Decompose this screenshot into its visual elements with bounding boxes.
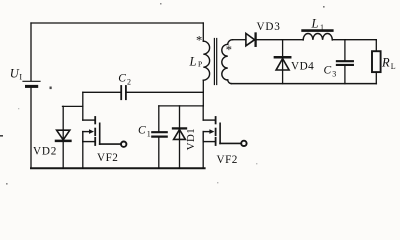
svg-text:C: C [138, 125, 146, 137]
svg-text:P: P [198, 60, 202, 69]
svg-text:1: 1 [147, 130, 151, 139]
svg-text:VD1: VD1 [185, 128, 197, 150]
svg-text:L: L [189, 55, 197, 69]
svg-text:VF2: VF2 [97, 152, 118, 164]
svg-text:R: R [381, 56, 390, 70]
svg-text:VD2: VD2 [33, 146, 57, 158]
svg-text:VF2: VF2 [217, 154, 238, 166]
svg-text:L: L [391, 62, 396, 71]
svg-text:*: * [226, 43, 232, 57]
svg-text:2: 2 [127, 78, 131, 87]
svg-text:C: C [324, 65, 332, 77]
svg-text:1: 1 [320, 23, 324, 32]
svg-text:C: C [118, 73, 126, 85]
svg-text:VD4: VD4 [291, 61, 314, 73]
svg-text:3: 3 [332, 70, 336, 79]
svg-text:I: I [19, 72, 22, 81]
svg-text:*: * [196, 34, 202, 48]
svg-text:VD3: VD3 [257, 21, 281, 33]
svg-text:L: L [311, 17, 319, 31]
svg-text:U: U [10, 66, 20, 80]
